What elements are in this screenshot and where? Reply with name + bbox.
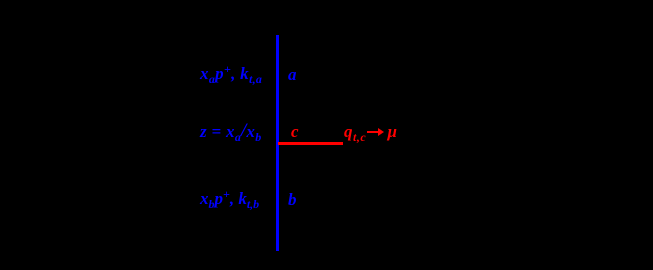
label x_b p^+, k_t,b <box>200 190 259 207</box>
arrow shaft <box>367 131 379 133</box>
node label a <box>288 66 297 83</box>
node label c <box>291 123 299 140</box>
node label b <box>288 191 297 208</box>
arrow head <box>378 128 384 136</box>
label z = x_a/x_b <box>200 122 262 141</box>
emitted parton red horizontal line c <box>278 142 343 145</box>
incoming parton vertical line <box>276 35 279 251</box>
label x_a p^+, k_t,a <box>200 65 262 82</box>
label q_t,c <box>344 123 366 140</box>
label mu <box>388 123 397 140</box>
